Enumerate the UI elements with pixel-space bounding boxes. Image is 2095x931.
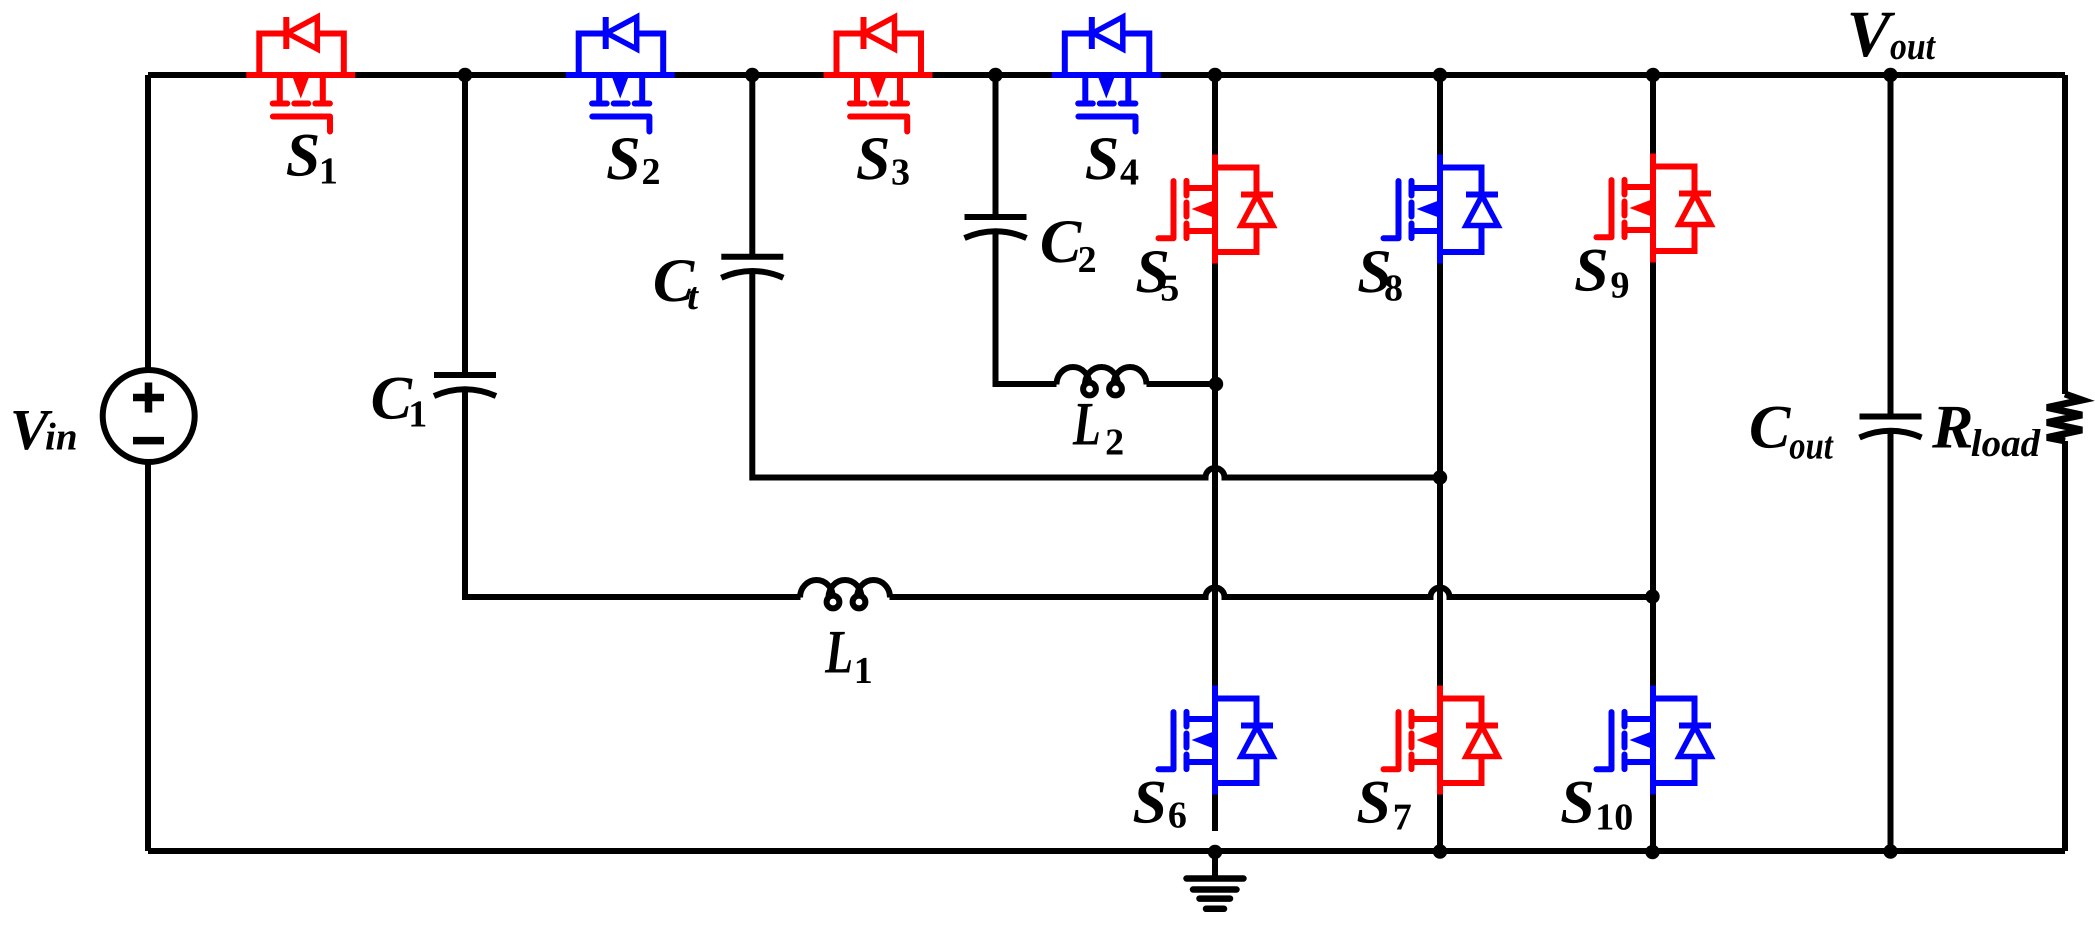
svg-text:4: 4	[1120, 151, 1139, 193]
svg-text:out: out	[1890, 25, 1936, 68]
svg-text:1: 1	[319, 150, 338, 192]
svg-text:1: 1	[854, 650, 873, 692]
svg-text:C: C	[371, 364, 413, 432]
svg-text:t: t	[687, 275, 699, 318]
svg-text:C: C	[1040, 208, 1082, 276]
svg-text:2: 2	[642, 151, 661, 193]
svg-text:V: V	[1847, 0, 1896, 71]
svg-text:8: 8	[1384, 268, 1403, 310]
svg-text:10: 10	[1595, 796, 1633, 838]
svg-text:S: S	[1133, 768, 1167, 836]
svg-text:S: S	[1560, 768, 1594, 836]
svg-text:load: load	[1971, 422, 2041, 465]
svg-text:S: S	[606, 125, 640, 193]
svg-text:7: 7	[1393, 796, 1412, 838]
svg-text:R: R	[1931, 394, 1973, 462]
svg-text:3: 3	[891, 151, 910, 193]
svg-text:5: 5	[1160, 268, 1179, 310]
svg-text:2: 2	[1078, 239, 1097, 281]
svg-text:9: 9	[1611, 265, 1630, 307]
svg-text:out: out	[1789, 424, 1833, 467]
svg-text:S: S	[1356, 768, 1390, 836]
svg-text:2: 2	[1105, 422, 1124, 464]
svg-text:1: 1	[408, 393, 427, 435]
svg-text:S: S	[1574, 237, 1608, 305]
svg-text:L: L	[824, 619, 853, 687]
svg-text:C: C	[1749, 393, 1791, 461]
svg-text:S: S	[286, 122, 320, 190]
svg-text:S: S	[856, 125, 890, 193]
svg-text:in: in	[45, 415, 78, 458]
svg-text:L: L	[1072, 390, 1101, 458]
svg-text:S: S	[1085, 125, 1119, 193]
svg-text:6: 6	[1168, 794, 1187, 836]
